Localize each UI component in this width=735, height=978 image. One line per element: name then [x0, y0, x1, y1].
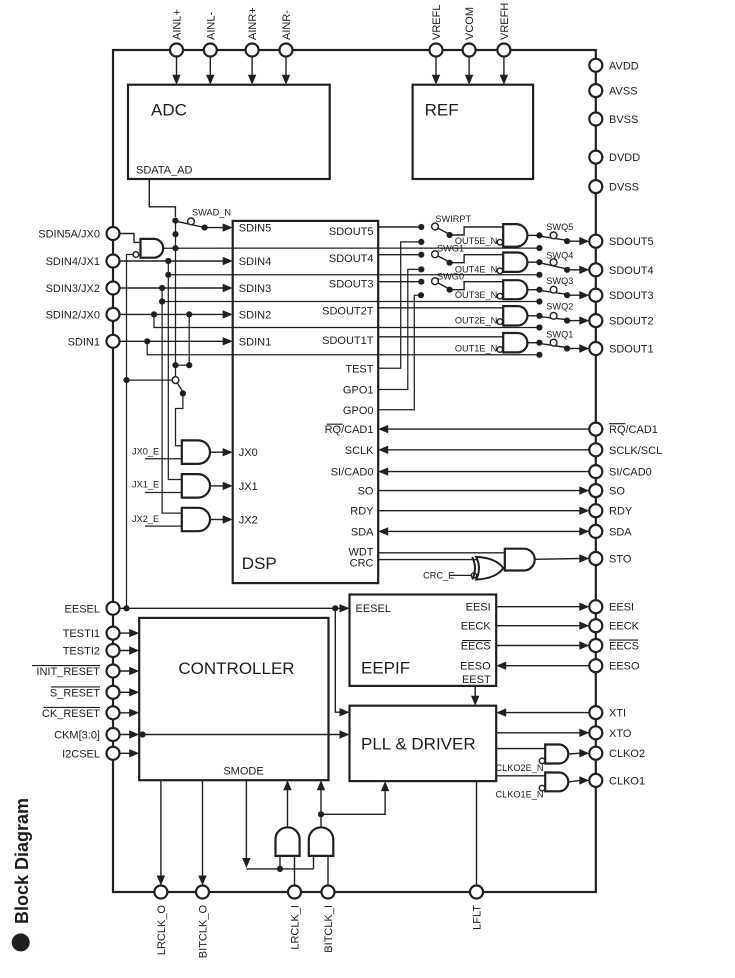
pin CLKO2	[589, 747, 602, 760]
svg-text:TESTI2: TESTI2	[63, 646, 100, 658]
switch SWQ2	[536, 313, 542, 319]
svg-text:SDIN3/JX2: SDIN3/JX2	[46, 283, 100, 295]
wire VREFH to REF	[503, 57, 505, 77]
wire TEST riser	[378, 242, 421, 368]
pin XTO	[589, 726, 602, 739]
pin AINR+	[246, 44, 259, 57]
wire V3 SDIN3 column to JX2	[162, 288, 182, 513]
svg-text:TESTI1: TESTI1	[63, 628, 100, 640]
svg-text:SDA: SDA	[609, 526, 632, 538]
svg-text:PLL & DRIVER: PLL & DRIVER	[361, 735, 476, 754]
svg-text:EESO: EESO	[609, 661, 640, 673]
junction U_B branch	[318, 811, 324, 817]
svg-text:CRC: CRC	[350, 557, 374, 569]
svg-text:SWG1: SWG1	[437, 243, 464, 253]
svg-text:SDIN4/JX1: SDIN4/JX1	[46, 256, 100, 268]
svg-text:EEPIF: EEPIF	[361, 659, 410, 678]
wire U_B branch to PLL	[321, 790, 385, 814]
svg-text:CLKO1E_N: CLKO1E_N	[495, 790, 543, 800]
svg-text:EESO: EESO	[460, 661, 491, 673]
junction V5 at JX0 select row	[172, 362, 178, 368]
pin SDIN2/JX0	[107, 308, 120, 321]
svg-text:OUT1E_N: OUT1E_N	[455, 343, 497, 353]
switch SWQ3	[536, 287, 542, 293]
svg-text:EESEL: EESEL	[356, 603, 391, 615]
wire CLKO2 gate to pin	[568, 752, 580, 755]
wire gate U3 output	[527, 289, 539, 291]
gate U_XOR (CRC xor CRC_E)	[476, 557, 503, 580]
svg-text:SDA: SDA	[351, 526, 374, 538]
wire JX1 gate output to DSP	[210, 485, 224, 487]
pin LFLT	[470, 886, 483, 899]
wire switch SWIRPT to gate U5	[450, 227, 504, 235]
wire SDIN2/JX0 pin to DSP SDIN2	[113, 313, 224, 315]
svg-text:SDIN5A/JX0: SDIN5A/JX0	[38, 229, 100, 241]
gate U4 (output enable AND)	[503, 253, 527, 272]
pin AVSS	[589, 84, 602, 97]
wire SWAD_N to DSP SDIN5	[205, 227, 224, 229]
junction EESEL control	[123, 377, 129, 383]
wire VREFL to REF	[435, 57, 437, 77]
svg-text:SDOUT1T: SDOUT1T	[322, 335, 374, 347]
wire CRC_E	[450, 574, 472, 576]
pin SCLK/SCL	[589, 443, 602, 456]
switch SWIRPT	[418, 224, 424, 230]
svg-text:AVDD: AVDD	[609, 60, 639, 72]
wire SDATA_AD from ADC	[149, 179, 175, 217]
pin I2CSEL	[107, 747, 120, 760]
wire switch SWQ5 to pin SDOUT5	[567, 240, 580, 242]
wire SO	[378, 490, 580, 492]
wire switch SWQ1 to pin SDOUT1	[567, 348, 580, 350]
pin LRCLK_O	[154, 886, 167, 899]
block REF	[413, 85, 533, 179]
svg-text:BVSS: BVSS	[609, 114, 638, 126]
svg-text:SWQ5: SWQ5	[546, 222, 573, 232]
svg-text:JX2_E: JX2_E	[132, 514, 159, 524]
pin RDY	[589, 504, 602, 517]
svg-text:SI/CAD0: SI/CAD0	[609, 467, 652, 479]
wire BITCLK_O	[202, 780, 204, 876]
svg-text:SDIN3: SDIN3	[239, 283, 271, 295]
wire GPO0 riser	[378, 295, 421, 410]
junction bypass row 1	[536, 352, 542, 358]
svg-text:RQ/CAD1: RQ/CAD1	[325, 424, 374, 436]
svg-text:SDOUT4: SDOUT4	[609, 265, 654, 277]
pin VREFH	[497, 44, 510, 57]
svg-text:EECS: EECS	[609, 641, 639, 653]
svg-text:S_RESET: S_RESET	[50, 687, 100, 699]
overline EECS (EEPIF)	[462, 640, 491, 642]
svg-text:EESEL: EESEL	[65, 603, 100, 615]
wire switch SWQ4 to pin SDOUT4	[567, 269, 580, 271]
bubble CLKO2E_N	[539, 758, 545, 764]
svg-text:OUT2E_N: OUT2E_N	[455, 315, 497, 325]
pin SDOUT2	[589, 314, 602, 327]
pin BITCLK_I	[322, 886, 335, 899]
junction V4 at SDIN4 bypass	[165, 272, 171, 278]
junction SMODE to gate U_A	[277, 866, 283, 872]
svg-text:SWQ4: SWQ4	[546, 251, 573, 261]
svg-text:DVSS: DVSS	[609, 182, 639, 194]
wire JX1_E stub	[145, 492, 182, 494]
gate U_STO (AND)	[505, 549, 535, 571]
pin LRCLK_I	[288, 886, 301, 899]
wire DSP SDOUT1T to gate U1	[378, 336, 503, 338]
svg-text:SWAD_N: SWAD_N	[192, 208, 231, 218]
pin CKM[3:0]	[107, 728, 120, 741]
pin VCOM	[463, 44, 476, 57]
svg-text:VREFL: VREFL	[431, 5, 443, 40]
gate U1 (output enable AND)	[503, 333, 527, 352]
svg-text:SDOUT4: SDOUT4	[329, 253, 374, 265]
wire GPO1 riser	[378, 269, 421, 389]
wire SCLK	[387, 449, 596, 451]
junction bypass row 3	[536, 298, 542, 304]
svg-text:LFLT: LFLT	[472, 905, 484, 930]
pin EECS	[589, 639, 602, 652]
switch SWAD_N	[172, 218, 178, 224]
svg-text:SO: SO	[358, 486, 374, 498]
wire DSP SDOUT2T to gate U2	[378, 307, 503, 309]
wire switch SWG0 to gate U3	[450, 282, 504, 290]
pin EESI	[589, 600, 602, 613]
svg-text:SDOUT5: SDOUT5	[609, 236, 654, 248]
wire gate U2 output	[527, 315, 539, 317]
svg-text:BITCLK_O: BITCLK_O	[198, 905, 210, 959]
junction EESEL to PLL branch	[332, 605, 338, 611]
wire LRCLK_I up	[294, 856, 296, 886]
svg-text:I2CSEL: I2CSEL	[62, 748, 100, 760]
wire TESTI2 to CONTROLLER	[113, 650, 130, 652]
svg-text:SCLK: SCLK	[345, 445, 374, 457]
wire I2CSEL to CONTROLLER	[113, 752, 130, 754]
svg-text:INIT_RESET: INIT_RESET	[36, 666, 100, 678]
svg-text:Block Diagram: Block Diagram	[12, 798, 32, 924]
pin EESO	[589, 659, 602, 672]
wire SMODE down	[245, 780, 247, 860]
wire CRC	[378, 559, 484, 561]
junction bypass row 2	[536, 324, 542, 330]
svg-text:SWQ3: SWQ3	[546, 276, 573, 286]
bubble OUT5E_N	[497, 239, 503, 245]
junction GPO1 alt contact	[418, 266, 424, 272]
wire EECK	[496, 625, 580, 627]
switch SWQ1	[536, 340, 542, 346]
svg-text:SWQ1: SWQ1	[546, 329, 573, 339]
svg-text:OUT3E_N: OUT3E_N	[455, 290, 497, 300]
wire EESEL vertical	[126, 255, 128, 609]
wire EESEL	[113, 607, 341, 609]
wire LFLT	[476, 781, 478, 885]
pin STO	[589, 552, 602, 565]
svg-text:CLKO2E_N: CLKO2E_N	[495, 763, 543, 773]
junction V3 at SDIN3 bypass	[159, 298, 165, 304]
svg-text:EECK: EECK	[609, 621, 640, 633]
pin SDIN3/JX2	[107, 282, 120, 295]
svg-text:GPO1: GPO1	[343, 385, 374, 397]
wire DSP SDOUT5 to switch SWIRPT	[378, 226, 421, 228]
block EEPIF	[350, 595, 497, 686]
svg-text:AINR-: AINR-	[281, 10, 293, 40]
svg-text:GPO0: GPO0	[343, 405, 374, 417]
pin SDOUT3	[589, 289, 602, 302]
gate U_JX2 (AND)	[182, 508, 210, 531]
svg-text:SO: SO	[609, 486, 625, 498]
wire row separator/bypass SDIN3 row	[162, 301, 539, 303]
bubble OUT4E_N	[497, 268, 503, 274]
svg-text:EECS: EECS	[461, 641, 491, 653]
pin CK_RESET	[107, 706, 120, 719]
junction GPO0 alt contact	[418, 292, 424, 298]
pin AINL-	[204, 44, 217, 57]
svg-text:EESI: EESI	[466, 602, 491, 614]
svg-text:SDIN2/JX0: SDIN2/JX0	[46, 309, 100, 321]
svg-text:TEST: TEST	[345, 363, 373, 375]
chip outer border	[113, 50, 596, 892]
wire DSP SDOUT4 to switch SWG1	[378, 254, 421, 256]
wire AINL+ to ADC	[176, 57, 178, 77]
switch JX0 source select	[172, 377, 179, 384]
wire row separator/bypass SDIN1 row	[147, 341, 539, 355]
svg-text:SDIN5: SDIN5	[239, 223, 271, 235]
wire gate U_A left input	[279, 856, 281, 869]
svg-text:AINL-: AINL-	[205, 12, 217, 40]
pin CLKO1	[589, 774, 602, 787]
wire row separator/bypass SDIN2 row	[154, 314, 539, 327]
junction EESEL at vertical	[123, 605, 129, 611]
gate U_CLKO2 (AND)	[545, 745, 568, 764]
svg-text:SMODE: SMODE	[223, 766, 263, 778]
pin AINR-	[280, 44, 293, 57]
wire gate U5 output	[527, 234, 539, 236]
pin SDA	[589, 525, 602, 538]
svg-text:SDIN2: SDIN2	[239, 309, 271, 321]
block PLL & DRIVER	[350, 706, 497, 781]
wire CKM to PLL (through controller)	[139, 731, 145, 737]
block DSP	[233, 221, 379, 583]
svg-text:RQ/CAD1: RQ/CAD1	[609, 424, 658, 436]
wire STO	[535, 558, 581, 561]
pin SDIN1	[107, 335, 120, 348]
junction SDIN2 drop B	[186, 311, 192, 317]
wire JX2 gate output to DSP	[210, 519, 224, 521]
wire JX2_E stub	[145, 525, 182, 527]
wire RDY	[378, 510, 580, 512]
svg-text:DSP: DSP	[242, 554, 277, 573]
wire V4 SDIN4 column to JX1	[168, 261, 182, 480]
bubble OUT3E_N	[497, 293, 503, 299]
pin VREFL	[430, 44, 443, 57]
wire JX0 gate output to DSP	[210, 451, 224, 453]
svg-text:SDOUT2T: SDOUT2T	[322, 306, 374, 318]
bubble U2 inverted input	[133, 252, 139, 258]
svg-text:SDIN1: SDIN1	[68, 336, 100, 348]
junction bypass row 4	[536, 272, 542, 278]
wire SMODE row	[246, 868, 313, 870]
wire CLKO1 gate to pin	[568, 780, 580, 782]
svg-text:SDOUT3: SDOUT3	[329, 278, 374, 290]
gate U_B (BITCLK_I AND SMODE)	[309, 827, 334, 856]
svg-text:AINL+: AINL+	[172, 9, 184, 40]
svg-text:JX1: JX1	[239, 481, 258, 493]
wire PLL to CLKO2 gate	[496, 748, 545, 750]
wire SI/CAD0	[387, 471, 596, 473]
wire row separator/bypass SDIN4 row	[168, 274, 539, 276]
gate U_JX0 (AND)	[182, 440, 210, 464]
gate U_CLKO1 (AND)	[545, 773, 568, 792]
wire EEST to PLL	[474, 686, 476, 698]
bubble OUT2E_N	[497, 319, 503, 325]
pin DVDD	[589, 151, 602, 164]
wire switch SWQ2 to pin SDOUT2	[567, 320, 580, 322]
svg-text:RDY: RDY	[609, 506, 633, 518]
wire AINL- to ADC	[209, 57, 211, 77]
wire JX0 switch to gate U3	[176, 393, 183, 445]
svg-text:LRCLK_O: LRCLK_O	[156, 905, 168, 956]
gate U2 (output enable AND)	[503, 306, 527, 325]
wire V5 SDIN5A column	[175, 221, 177, 377]
svg-text:AVSS: AVSS	[609, 86, 638, 98]
wire JX0 select row	[176, 364, 190, 366]
wire TESTI1 to CONTROLLER	[113, 632, 130, 634]
pin AVDD	[589, 59, 602, 72]
svg-text:SWQ2: SWQ2	[546, 301, 573, 311]
junction V5 at SDIN5A row	[172, 231, 178, 237]
svg-text:REF: REF	[425, 101, 459, 120]
wire U_B output to CONTROLLER	[320, 789, 322, 827]
junction TEST alt contact	[418, 239, 424, 245]
wire XTI	[505, 712, 596, 714]
block ADC	[128, 85, 330, 179]
wire SDIN1 pin to DSP SDIN1	[113, 340, 224, 342]
wire AINR+ to ADC	[251, 57, 253, 77]
pin EECK	[589, 619, 602, 632]
svg-text:CLKO1: CLKO1	[609, 775, 645, 787]
wire EESI	[496, 606, 580, 608]
overline RQ (DSP internal label)	[327, 423, 343, 425]
svg-text:EESI: EESI	[609, 602, 634, 614]
wire row separator/bypass SDIN5 row (from NAND output)	[163, 247, 539, 249]
svg-text:EEST: EEST	[462, 674, 491, 686]
pin SDOUT4	[589, 263, 602, 276]
wire EESEL to U2 bubble	[127, 254, 134, 256]
section bullet	[12, 933, 30, 951]
wire SDIN4/JX1 pin to DSP SDIN4	[113, 260, 224, 262]
pin TESTI1	[107, 627, 120, 640]
bubble CLKO1E_N	[539, 785, 545, 791]
wire EECS	[496, 645, 580, 647]
svg-text:SDIN4: SDIN4	[239, 256, 271, 268]
wire INIT_RESET to CONTROLLER	[113, 670, 130, 672]
wire RQ/CAD1	[387, 428, 596, 430]
switch SWQ4	[536, 259, 542, 265]
pin BITCLK_O	[196, 886, 209, 899]
junction U2 output to bypass row	[172, 245, 178, 251]
bubble CRC_E	[471, 573, 476, 578]
gate U5 (output enable AND)	[503, 224, 527, 247]
pin SO	[589, 484, 602, 497]
bubble OUT1E_N	[497, 347, 503, 353]
svg-text:SDOUT3: SDOUT3	[609, 290, 654, 302]
svg-text:STO: STO	[609, 554, 632, 566]
svg-text:JX1_E: JX1_E	[132, 480, 159, 490]
wire EESEL branch to PLL	[335, 608, 340, 712]
wire SDIN3/JX2 pin to DSP SDIN3	[113, 287, 224, 289]
wire S_RESET to CONTROLLER	[113, 691, 130, 693]
svg-text:LRCLK_I: LRCLK_I	[290, 905, 302, 950]
svg-text:SDOUT5: SDOUT5	[329, 226, 374, 238]
pin SDIN4/JX1	[107, 255, 120, 268]
wire XTO	[496, 732, 580, 734]
pin SDOUT1	[589, 342, 602, 355]
junction bypass row 5	[536, 245, 542, 251]
wire JX0_E stub	[145, 458, 182, 460]
pin RQCAD1	[589, 423, 602, 436]
svg-text:VCOM: VCOM	[464, 7, 476, 40]
pin INIT_RESET	[107, 665, 120, 678]
svg-text:CLKO2: CLKO2	[609, 748, 645, 760]
pin TESTI2	[107, 644, 120, 657]
svg-text:SWIRPT: SWIRPT	[435, 214, 471, 224]
gate U_A (LRCLK_I AND SMODE)	[276, 827, 300, 856]
svg-text:SWG0: SWG0	[437, 271, 464, 281]
wire switch SWG1 to gate U4	[450, 255, 504, 263]
pin DVSS	[589, 180, 602, 193]
svg-text:CKM[3:0]: CKM[3:0]	[54, 730, 100, 742]
pin SI/CAD0	[589, 465, 602, 478]
wire DSP SDOUT3 to switch SWG0	[378, 281, 421, 283]
wire gate U1 output	[527, 342, 539, 344]
wire U_A output to CONTROLLER	[287, 789, 289, 827]
junction V6 bottom	[186, 362, 192, 368]
block CONTROLLER	[139, 618, 328, 780]
wire BITCLK_I up	[327, 856, 329, 886]
pin EESEL	[107, 602, 120, 615]
wire WDT	[378, 552, 505, 554]
junction SDIN3 drop	[159, 285, 165, 291]
svg-text:ADC: ADC	[151, 101, 187, 120]
gate U3 (output enable AND)	[503, 280, 527, 299]
pin S_RESET	[107, 686, 120, 699]
wire LRCLK_O	[160, 780, 162, 876]
wire PLL to CLKO1 gate	[496, 775, 545, 777]
wire V6 SDIN2 to JX0 select row	[188, 314, 190, 365]
svg-text:SCLK/SCL: SCLK/SCL	[609, 445, 662, 457]
wire VCOM to REF	[468, 57, 470, 77]
junction SDIN4 drop	[165, 258, 171, 264]
junction SDIN1 drop	[144, 338, 150, 344]
svg-text:CK_RESET: CK_RESET	[42, 708, 100, 720]
pin SDIN5A/JX0	[107, 227, 120, 240]
wire AINR- to ADC	[285, 57, 287, 77]
svg-text:EECK: EECK	[461, 621, 492, 633]
junction SDIN2 drop A	[151, 311, 157, 317]
wire gate U_B left input	[313, 856, 315, 869]
svg-text:SDATA_AD: SDATA_AD	[136, 165, 192, 177]
wire SDIN5A/JX0 pin to gate U2 input	[113, 234, 141, 243]
pin SDOUT5	[589, 235, 602, 248]
wire EESEL control to JX0 switch	[127, 379, 173, 381]
svg-text:SDOUT2: SDOUT2	[609, 316, 654, 328]
svg-text:RDY: RDY	[350, 506, 374, 518]
pin BVSS	[589, 113, 602, 126]
switch SWG1	[418, 252, 424, 258]
svg-text:SDIN1: SDIN1	[239, 336, 271, 348]
svg-text:BITCLK_I: BITCLK_I	[323, 905, 335, 953]
wire CK_RESET to CONTROLLER	[113, 712, 130, 714]
svg-text:DVDD: DVDD	[609, 152, 640, 164]
